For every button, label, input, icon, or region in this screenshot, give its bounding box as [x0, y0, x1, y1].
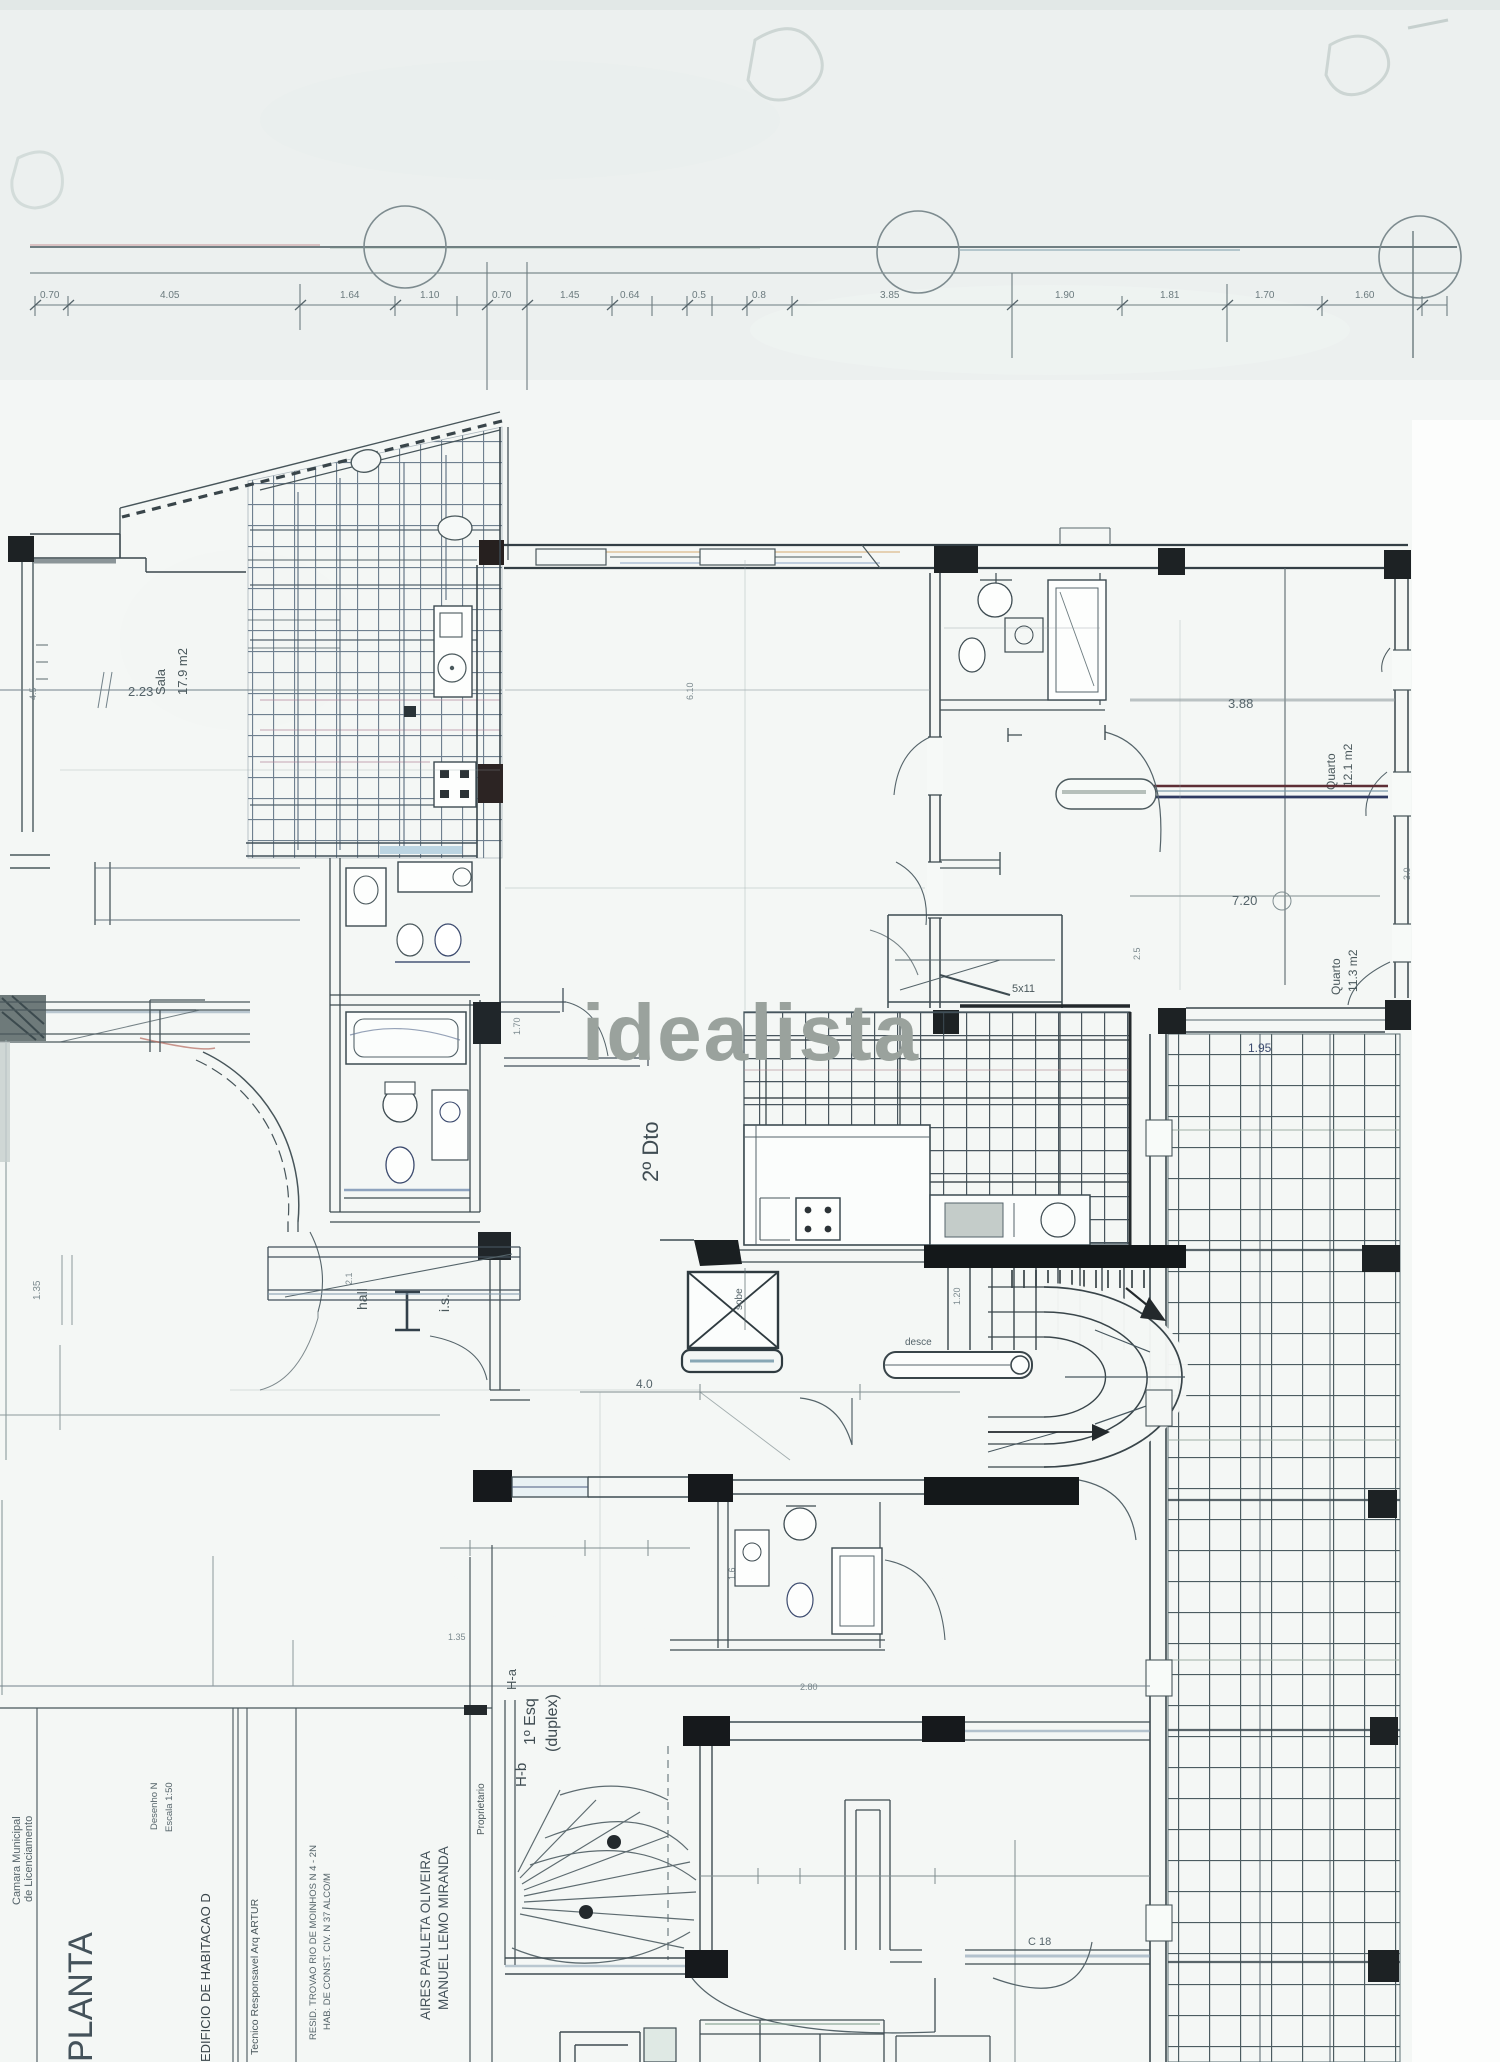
door arc to balcony room [260, 1312, 318, 1390]
bidet 3 [787, 1583, 813, 1617]
terrace tiled floor [1168, 1034, 1400, 2062]
structural grid line B [30, 272, 1457, 274]
hall column stub [1008, 728, 1022, 742]
stair arrow lower [988, 1431, 1098, 1433]
tiny dim texts [28, 682, 1412, 1692]
toilet 3 [784, 1508, 816, 1540]
svg-text:sobe: sobe [734, 1288, 745, 1310]
svg-text:Quarto: Quarto [1329, 958, 1343, 995]
svg-text:i.s.: i.s. [436, 1294, 452, 1312]
heavy wall kitchen-stair [924, 1245, 1186, 1268]
terrace chroma streaks [1168, 1130, 1400, 1660]
corridor lines below bath [940, 860, 1000, 868]
svg-text:5x11: 5x11 [1012, 983, 1035, 995]
courtyard tiled light well [744, 1012, 1130, 1244]
top dimension line [35, 304, 1447, 306]
svg-text:Camara Municipal: Camara Municipal [11, 1816, 23, 1905]
column P12 [1370, 1717, 1398, 1745]
door arcs hall [800, 1398, 852, 1445]
grid bubble 1 [364, 206, 446, 288]
small dark mark [404, 706, 416, 717]
left page-edge artifact [2, 1040, 6, 1695]
dimension tick slashes [30, 300, 1428, 310]
wall between P8 P9 [1186, 1008, 1385, 1032]
svg-text:desce: desce [905, 1337, 932, 1348]
terrace west wall [1150, 1034, 1166, 2062]
door in east wall with arc [1392, 772, 1411, 816]
grid bubble 3 [1379, 216, 1461, 298]
svg-text:1.64: 1.64 [340, 290, 360, 301]
wall segment right of closet [890, 1950, 922, 1962]
door arc lower right of bath [885, 1560, 945, 1640]
grid bubble 2 [877, 211, 959, 293]
wall notches [1146, 1120, 1172, 1941]
sala dimension line [0, 689, 502, 691]
column P10 [1362, 1245, 1400, 1272]
washbasin [1005, 618, 1043, 652]
right margin lighter [1412, 420, 1500, 2062]
apartment label 1 Esq [522, 1694, 561, 1752]
kitchen wall right [477, 427, 500, 1005]
stair flight upper [948, 1268, 1124, 1350]
lower-left dimension line [0, 1414, 440, 1416]
kitchen 2 counter [744, 1125, 930, 1245]
balcony long slab [268, 1247, 520, 1300]
door lintel capsule [1056, 779, 1156, 809]
west balcony slab [0, 995, 46, 1041]
small tick above wall right [1060, 528, 1110, 545]
title block frame [0, 1707, 492, 1709]
faint scan blotches [260, 60, 780, 180]
scan smudge top-left [748, 29, 822, 100]
column P5 [1158, 548, 1185, 575]
big door arc bottom [692, 1978, 935, 2033]
bath 2 left apartment: walls [330, 1000, 340, 1212]
scan smudge left [12, 152, 63, 208]
window in north wall [536, 549, 606, 565]
column P4 [934, 546, 978, 573]
laundry room top [888, 915, 1062, 1008]
corridor columns row y1716 [683, 1716, 730, 1746]
stair comb ticks under wall [1012, 1270, 1144, 1288]
upper bath fixtures left apartment [330, 858, 340, 1000]
window cut lower [1392, 924, 1411, 962]
svg-text:6.10: 6.10 [685, 682, 695, 700]
lower bath walls [718, 1502, 728, 1648]
wall notch at stair apex [1146, 1390, 1172, 1426]
svg-text:Tecnico Responsavel Arq ARTU: Tecnico Responsavel Arq ARTUR [249, 1898, 261, 2055]
dark edge below laundry [960, 1004, 1130, 1008]
svg-text:AIRES PAULETA OLIVEIRA: AIRES PAULETA OLIVEIRA [418, 1851, 433, 2020]
bidet 2 [386, 1147, 414, 1183]
long reference line above title block [0, 1685, 1150, 1687]
closet tall [845, 1800, 890, 1950]
svg-text:1.35: 1.35 [448, 1632, 466, 1642]
entry curved wall [203, 1052, 299, 1222]
column wedge [694, 1240, 742, 1266]
svg-text:MANUEL LEMO MIRANDA: MANUEL LEMO MIRANDA [436, 1846, 451, 2010]
svg-text:Desenho N: Desenho N [149, 1782, 160, 1830]
scan smudge top-right [1326, 36, 1389, 95]
svg-text:1.10: 1.10 [420, 290, 440, 301]
west wall lower stub [10, 855, 50, 868]
svg-text:4.5: 4.5 [28, 687, 38, 700]
svg-text:1.60: 1.60 [1355, 290, 1375, 301]
column P9 [1385, 1000, 1411, 1030]
svg-text:0.5: 0.5 [692, 290, 706, 301]
shower 3 [832, 1548, 882, 1634]
stair handrail pill [884, 1352, 1032, 1378]
svg-text:1.70: 1.70 [512, 1017, 522, 1035]
washbasin 3 [735, 1530, 769, 1586]
svg-text:de Licenciamento: de Licenciamento [23, 1816, 35, 1902]
wall below hall [490, 1260, 500, 1390]
column P1 [8, 536, 34, 562]
svg-text:0.64: 0.64 [620, 290, 640, 301]
column P11 [1368, 1490, 1397, 1518]
svg-text:2.80: 2.80 [800, 1682, 818, 1692]
svg-text:1.95: 1.95 [1248, 1041, 1272, 1055]
svg-text:Escala 1:50: Escala 1:50 [164, 1782, 175, 1832]
column P8 [1158, 1008, 1186, 1034]
west exterior wall [22, 562, 33, 832]
hall label 2 Dto [638, 1121, 663, 1182]
bubble on diagonal [349, 447, 383, 476]
corner stub above arc [150, 1000, 205, 1052]
window marks on west wall [36, 645, 48, 679]
svg-text:1.35: 1.35 [32, 1280, 43, 1300]
svg-text:7.20: 7.20 [1232, 893, 1257, 908]
column P14 [473, 1002, 501, 1044]
svg-text:3.0: 3.0 [1402, 867, 1412, 880]
west step wall [119, 508, 121, 534]
chroma fringe on north wall [560, 551, 900, 553]
east exterior wall [1395, 579, 1408, 998]
svg-text:0.8: 0.8 [752, 290, 766, 301]
bathtub [346, 1012, 466, 1064]
corridor door arc to bedroom [1105, 732, 1161, 852]
column P13 [1368, 1950, 1399, 1982]
pink scan fringe on kitchen tiles [260, 700, 500, 762]
stair well white [1044, 1283, 1189, 1471]
svg-text:HAB. DE CONST. CIV. N 37 ALCO/: HAB. DE CONST. CIV. N 37 ALCO/M [322, 1873, 333, 2030]
svg-text:1.70: 1.70 [1255, 290, 1275, 301]
svg-text:RESID. TROVAO RIO DE MOINHOS N: RESID. TROVAO RIO DE MOINHOS N 4 - 2N [308, 1845, 319, 2040]
oval basin top [438, 516, 472, 540]
dimension line mid [440, 1547, 690, 1549]
door arc hall [566, 1002, 608, 1056]
svg-text:(duplex): (duplex) [544, 1694, 561, 1752]
wc toilet [978, 583, 1012, 617]
kitchen sink unit [434, 606, 472, 697]
svg-text:2.23: 2.23 [128, 684, 153, 699]
shower tray [1048, 580, 1106, 700]
corridor east wall double [700, 1746, 712, 1970]
svg-text:11.3 m2: 11.3 m2 [1346, 949, 1360, 992]
svg-text:EDIFICIO DE HABITACAO D: EDIFICIO DE HABITACAO D [198, 1893, 213, 2062]
elevator shaft [688, 1272, 778, 1348]
kitchen floor tile hatch [248, 427, 502, 858]
svg-text:4.0: 4.0 [636, 1377, 653, 1391]
svg-text:12.1 m2: 12.1 m2 [1341, 743, 1355, 787]
shaft lower bar [682, 1350, 782, 1372]
bedroom divider vertical [1284, 568, 1286, 985]
bath block upper: walls [940, 700, 1105, 710]
bedroom divider wall (chroma) [1100, 785, 1388, 787]
svg-text:0.70: 0.70 [40, 290, 60, 301]
svg-text:Quarto: Quarto [1324, 753, 1338, 790]
column P3 [478, 764, 503, 803]
svg-text:idealista: idealista [582, 988, 920, 1077]
svg-text:1.45: 1.45 [560, 290, 580, 301]
window cut in east wall [1392, 650, 1411, 690]
kitchen south wall [246, 843, 477, 856]
row of columns and windows y1475 [473, 1470, 512, 1502]
top scan band [0, 0, 1500, 420]
landing slab below stair [505, 1958, 688, 1974]
radiator [395, 1292, 420, 1330]
kitchen 2 stove [796, 1198, 840, 1240]
bidet [959, 638, 985, 672]
bedroom 2 dimension [1130, 895, 1380, 897]
svg-text:Proprietario: Proprietario [476, 1783, 487, 1835]
stair arrow upper [1126, 1288, 1158, 1314]
svg-text:4.05: 4.05 [160, 290, 180, 301]
hall dimension line [580, 1391, 960, 1393]
svg-text:C 18: C 18 [1028, 1936, 1051, 1948]
column P15 [478, 1232, 511, 1260]
north exterior wall [504, 544, 1408, 546]
svg-text:hall: hall [354, 1288, 370, 1310]
svg-text:1.81: 1.81 [1160, 290, 1180, 301]
svg-text:PLANTA: PLANTA [62, 1932, 100, 2062]
basin 2 [432, 1090, 468, 1160]
bedroom 1 dimension [1130, 699, 1395, 702]
svg-text:H-a: H-a [504, 1668, 519, 1690]
door gap in corridor wall [927, 737, 943, 795]
svg-text:3.85: 3.85 [880, 290, 900, 301]
curved scissor stair [1044, 1287, 1182, 1467]
fan stair [518, 1786, 696, 1948]
interior wall between corridor and bedrooms [930, 573, 940, 1008]
white corridor gap [738, 1250, 924, 1262]
left lower walls [288, 1222, 298, 1232]
svg-text:0.70: 0.70 [492, 290, 512, 301]
svg-text:Sala: Sala [153, 668, 168, 695]
svg-text:1.20: 1.20 [952, 1287, 962, 1305]
column P6 [1384, 550, 1411, 579]
stair hall west wall [505, 1700, 515, 1965]
sala room label [153, 648, 190, 695]
svg-text:17.9 m2: 17.9 m2 [175, 648, 190, 695]
svg-text:2º Dto: 2º Dto [638, 1121, 663, 1182]
bottom furniture [560, 2032, 640, 2062]
svg-text:2.5: 2.5 [1132, 947, 1142, 960]
dimension line corridor [700, 1875, 1150, 1877]
balcony diagonal parapet (dashed) [120, 412, 500, 508]
structural grid line A [30, 246, 1457, 248]
svg-text:1.90: 1.90 [1055, 290, 1075, 301]
stray scan lines [505, 689, 930, 691]
column P7 [933, 1010, 959, 1034]
hall wall corner [500, 1002, 566, 1012]
kitchen 2 sink [930, 1195, 1090, 1245]
svg-text:1º Esq: 1º Esq [522, 1698, 539, 1745]
svg-text:2.1: 2.1 [344, 1272, 354, 1285]
column P2 [479, 540, 504, 565]
dimension labels [40, 290, 1375, 301]
svg-text:3.88: 3.88 [1228, 696, 1253, 711]
stove 4 plates [434, 762, 476, 807]
toilet 2 [383, 1088, 417, 1122]
